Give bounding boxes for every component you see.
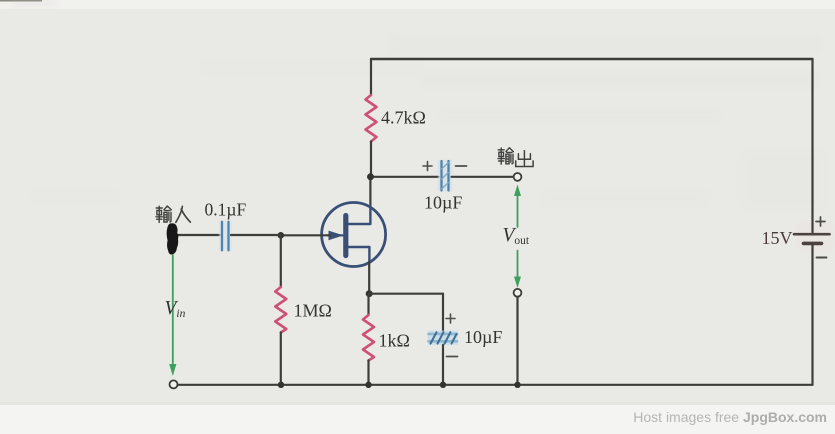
svg-text:1MΩ: 1MΩ: [294, 301, 332, 321]
label 输出 (output): [498, 148, 533, 167]
transistor Q1 JFET circle: [322, 203, 386, 267]
svg-text:10µF: 10µF: [424, 193, 462, 213]
wire: cap C1 to gate node: [231, 234, 281, 236]
svg-text:0.1µF: 0.1µF: [205, 200, 247, 220]
wire: top supply rail: [371, 58, 813, 60]
wire: source node to bypass cap branch: [369, 293, 443, 295]
battery minus label: [817, 257, 827, 259]
svg-text:10µF: 10µF: [464, 327, 502, 347]
wire: cap C3 to bottom rail: [442, 345, 444, 385]
wire: source node down to resistor RS: [367, 294, 369, 315]
capacitor C2 minus sign: [456, 165, 467, 167]
svg-text:Host images free JpgBox.com: Host images free JpgBox.com: [633, 409, 827, 425]
node: gate junction dot: [278, 232, 285, 239]
node: input lower terminal (open circle): [170, 380, 178, 388]
wire: gate node down to resistor RG: [280, 235, 282, 287]
capacitor C3 10uF backdrop: [428, 331, 458, 345]
node: output terminal (open circle): [514, 173, 522, 181]
V_out upper green arrow: [517, 194, 519, 227]
wire: resistor RG to bottom rail: [280, 333, 282, 385]
node: source junction dot: [366, 290, 373, 297]
battery B1 15V long plate: [794, 233, 830, 236]
battery B1 15V short plate: [804, 242, 822, 246]
node: lower output terminal (open circle): [514, 289, 522, 297]
wire: lower terminal to bottom rail: [516, 297, 518, 385]
capacitor C1 0.1uF backdrop: [219, 221, 232, 251]
wire: battery - down to bottom rail: [811, 245, 813, 385]
transistor Q1 source lead: [348, 247, 369, 263]
wire: resistor RD to drain node: [370, 142, 372, 177]
capacitor C3 hatch: [431, 332, 457, 343]
transistor Q1 channel bar: [343, 216, 348, 256]
label 输入 (input): [156, 206, 190, 222]
capacitor C2 hatch: [442, 163, 449, 190]
capacitor C1 plates: [222, 222, 229, 251]
faint bleed-through smudges: [12, 0, 835, 250]
wire: V_in green line: [172, 255, 174, 365]
wire: bypass branch down to cap C3: [442, 294, 444, 333]
V_out lower green arrow: [517, 251, 519, 279]
wire: bottom ground rail: [178, 384, 813, 386]
capacitor C2 plus sign: [423, 162, 432, 171]
resistor RD 4.7k zigzag: [366, 95, 377, 142]
V_in arrow head: [169, 364, 176, 376]
resistor RS 1k zigzag: [363, 315, 374, 361]
input ink blob terminal: [167, 223, 179, 254]
capacitor C3 plates: [429, 334, 458, 341]
wire: coupling cap to output terminal: [452, 176, 514, 178]
wire: gate node to transistor gate: [281, 234, 330, 236]
capacitor C3 plus sign: [446, 314, 455, 323]
resistor RG 1M zigzag: [275, 287, 286, 333]
wire: drain vertical into transistor: [369, 177, 371, 207]
wire: drain node to coupling cap: [371, 176, 439, 178]
battery plus label: [816, 217, 825, 226]
svg-text:4.7kΩ: 4.7kΩ: [381, 108, 426, 128]
svg-text:15V: 15V: [762, 228, 793, 248]
svg-text:1kΩ: 1kΩ: [379, 331, 410, 351]
wire: source vertical to source node: [368, 262, 370, 294]
wire: resistor RS to bottom rail: [367, 361, 369, 385]
transistor Q1 drain lead: [348, 206, 370, 224]
capacitor C2 10uF backdrop: [438, 160, 452, 191]
capacitor C2 plates: [442, 161, 449, 191]
wire: top rail to resistor RD: [370, 59, 372, 95]
node: drain junction dot: [367, 173, 374, 180]
transistor Q1 gate arrow: [328, 234, 343, 236]
wire: right side down to battery +: [811, 59, 813, 233]
wire: input to coupling cap C1: [177, 234, 220, 236]
capacitor C3 minus sign: [447, 356, 458, 358]
node: bottom rail junction dots: [278, 382, 284, 388]
